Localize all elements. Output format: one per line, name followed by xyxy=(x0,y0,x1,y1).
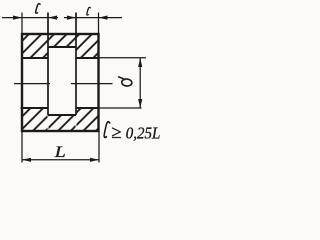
groove right wall / extension line xyxy=(75,13,77,116)
L extension line left xyxy=(21,131,23,163)
hatch top-middle strip xyxy=(49,35,76,47)
bore top edge left xyxy=(21,57,48,59)
L arrow left xyxy=(22,158,31,162)
L arrow right xyxy=(90,158,99,162)
arrow left at x98.5 xyxy=(99,16,108,20)
arrow right at x76 with tail xyxy=(64,17,76,19)
center line (axis) xyxy=(14,83,113,85)
svg-text:0,25L: 0,25L xyxy=(126,123,161,142)
arrow left at x48 with tail xyxy=(48,17,58,19)
hatch bottom-middle strip xyxy=(49,116,76,131)
d dimension line xyxy=(139,58,141,108)
note l >= 0,25L : leading l glyph xyxy=(104,122,110,138)
L dimension line xyxy=(22,159,99,161)
bore top edge right xyxy=(76,57,99,59)
svg-text:L: L xyxy=(54,144,66,161)
d arrow up xyxy=(138,58,142,67)
groove bottom edge xyxy=(48,114,76,116)
label l top-left xyxy=(36,4,40,14)
bore bottom edge right xyxy=(76,107,99,109)
part outline xyxy=(22,34,99,131)
hatch top-left band xyxy=(23,35,48,58)
L extension line right xyxy=(98,131,100,163)
bore bottom edge left xyxy=(21,107,49,109)
top dimension line l (left) xyxy=(2,17,48,19)
label l top-right xyxy=(87,7,91,15)
label d (rotated) xyxy=(119,77,133,87)
groove left wall / extension line xyxy=(47,13,49,116)
extension line right top xyxy=(98,13,100,35)
svg-text:≥: ≥ xyxy=(111,123,121,143)
extension line left top xyxy=(21,13,23,35)
d extension line top xyxy=(99,57,147,59)
d extension line bottom xyxy=(99,107,142,109)
groove top edge xyxy=(48,46,76,48)
top dimension line l (right) xyxy=(76,17,122,19)
hatch bottom-right band xyxy=(77,109,99,131)
hatch bottom-left band xyxy=(23,109,48,131)
arrow right at x22 xyxy=(13,16,22,20)
d arrow down xyxy=(138,99,142,108)
hatch top-right band xyxy=(77,35,99,58)
